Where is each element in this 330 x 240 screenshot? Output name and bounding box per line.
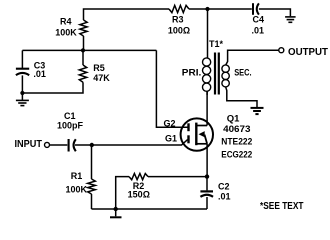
capacitor C1 100pF (series input)	[57, 111, 84, 151]
svg-text:R5: R5	[93, 63, 105, 73]
ground: top right	[285, 17, 296, 22]
node: junction dot bottom rail / ground	[114, 207, 118, 211]
wire: secondary bottom to ground	[226, 87, 257, 107]
capacitor C3 .01 (left, vertical)	[16, 50, 46, 93]
wire: T1 primary bottom to Q1 drain	[206, 92, 208, 126]
svg-text:OUTPUT: OUTPUT	[288, 46, 329, 58]
svg-text:C2: C2	[218, 182, 230, 192]
svg-text:C4: C4	[253, 15, 265, 25]
svg-text:100K: 100K	[65, 185, 87, 195]
resistor R1 100K (vertical, input bias)	[65, 145, 95, 209]
svg-text:100K: 100K	[55, 27, 77, 37]
wire: bottom ground rail	[92, 208, 208, 210]
svg-text:.01: .01	[252, 26, 265, 36]
ground: below C3	[16, 93, 29, 106]
svg-text:100pF: 100pF	[57, 121, 84, 131]
resistor R2 150ohm (horizontal, source)	[116, 174, 207, 210]
wire: top supply rail left segment	[84, 9, 170, 20]
transformer T1 (PRI / SEC with core)	[182, 9, 252, 95]
wire: input terminal to C1	[50, 144, 68, 146]
svg-text:100Ω: 100Ω	[168, 25, 190, 35]
svg-text:40673: 40673	[223, 124, 250, 135]
svg-text:.01: .01	[218, 192, 231, 202]
terminal: OUTPUT	[279, 46, 329, 58]
svg-text:.01: .01	[33, 69, 46, 79]
wire: Q1 source down to R2/C2 node	[206, 144, 208, 177]
svg-text:SEC.: SEC.	[234, 68, 251, 78]
svg-text:*SEE TEXT: *SEE TEXT	[260, 201, 304, 212]
ground: bottom (below R2 node)	[110, 209, 122, 220]
capacitor C2 .01 (source bypass)	[200, 177, 230, 209]
node: junction dot C1/R1/G1	[90, 143, 94, 147]
resistor R4 100K (vertical)	[55, 16, 87, 50]
ground: secondary	[251, 108, 264, 114]
resistor R3 100ohm (top, horizontal)	[168, 5, 190, 35]
wire: secondary top to OUTPUT terminal	[226, 50, 279, 65]
svg-text:R3: R3	[172, 14, 184, 24]
resistor R5 47K (vertical)	[79, 50, 110, 83]
svg-text:Q1: Q1	[227, 114, 240, 125]
svg-text:NTE222: NTE222	[221, 137, 252, 148]
node: junction dot C3 bottom / ground rail	[20, 91, 24, 95]
capacitor C4 .01 (top, horizontal)	[252, 3, 265, 35]
svg-text:T1*: T1*	[209, 39, 224, 49]
wire: G1 lead into Q1 gate 1	[92, 140, 188, 145]
svg-text:R1: R1	[71, 171, 83, 181]
wire: lower-left ground rail C3 to R5	[22, 82, 83, 93]
svg-text:ECG222: ECG222	[221, 150, 252, 161]
wire: G2 lead from bias rail down and into Q1 gate 2	[156, 50, 187, 127]
svg-text:PRI.: PRI.	[182, 68, 202, 78]
node: junction dot R4/R5/G2 rail	[81, 48, 85, 52]
svg-text:INPUT: INPUT	[15, 139, 43, 150]
wire: top rail C4 to ground corner	[259, 9, 291, 16]
wire: top rail R3 to C4	[189, 8, 252, 10]
svg-text:47K: 47K	[93, 73, 110, 83]
wire: C1 to G1 junction	[75, 144, 92, 146]
svg-text:R4: R4	[60, 16, 72, 26]
terminal: INPUT	[15, 139, 50, 150]
node: junction dot top rail / T1 primary	[205, 7, 209, 11]
node: junction dot source/R2/C2	[205, 174, 209, 178]
transistor Q1 dual-gate MOSFET 40673/NTE222/ECG222	[181, 114, 253, 161]
wire: G2 bias rail (mid-left horizontal)	[22, 49, 156, 51]
svg-text:150Ω: 150Ω	[128, 190, 150, 200]
svg-text:G1: G1	[165, 134, 177, 144]
svg-text:G2: G2	[164, 119, 176, 129]
